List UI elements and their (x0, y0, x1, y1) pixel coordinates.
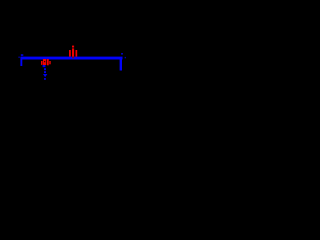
wire: dashed drop, dash 3 (44, 71, 46, 73)
pin 1: dash above left edge (21, 54, 24, 56)
component R1: right bar (76, 50, 78, 57)
ground arrow: arrowhead (43, 74, 47, 77)
node C: stub dot right of corner (125, 57, 126, 58)
wire: main horizontal net (21, 57, 123, 60)
component R1: middle bar (72, 48, 74, 56)
junction: dark blend where middle bar crosses the net (72, 57, 74, 59)
wire: left vertical rising-edge segment (20, 57, 22, 66)
node A: left terminal dot (19, 57, 20, 58)
ground arrow: terminal dot (44, 78, 46, 80)
value label: red text right tick (49, 61, 50, 64)
wire: dashed drop, dash 1 (43, 65, 46, 67)
wire: right vertical falling-edge segment (120, 57, 122, 71)
component R1: dot above middle bar (72, 46, 74, 48)
value label: red text second glyph bar (47, 59, 49, 65)
value label: red text left tick (41, 61, 43, 65)
component R1: red marker bars on the net (left bar) (69, 50, 71, 57)
value label: red text main glyph (43, 59, 46, 65)
wire: dashed drop, dash 2 (44, 68, 46, 70)
node B: dot above right corner (121, 53, 123, 55)
